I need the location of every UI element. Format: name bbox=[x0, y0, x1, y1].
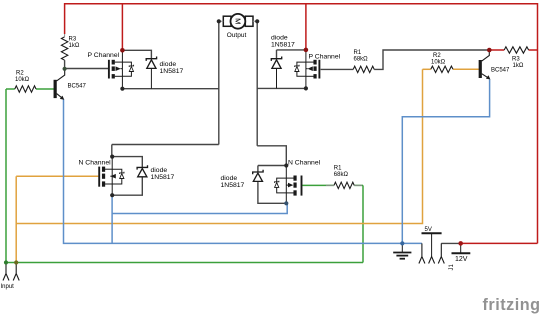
svg-text:R3: R3 bbox=[512, 57, 520, 63]
node motor left terminal bbox=[217, 19, 221, 23]
motor M1 Output bbox=[219, 14, 257, 29]
node N1 drain bbox=[110, 155, 114, 159]
node 12V junction bbox=[458, 241, 463, 246]
ground symbol bbox=[393, 243, 411, 258]
diode D2 1N5817 bbox=[271, 57, 281, 89]
svg-text:68kΩ: 68kΩ bbox=[354, 57, 369, 63]
wire N1 source to D3 bottom bbox=[112, 177, 142, 195]
node ground junction bbox=[400, 241, 404, 245]
resistor R2 left 10k bbox=[15, 86, 36, 92]
diode D4 1N5817 bbox=[253, 170, 263, 183]
wire red drop to P1 drain bbox=[121, 4, 123, 51]
node input pin1 green bbox=[4, 260, 8, 264]
svg-text:R2: R2 bbox=[16, 71, 24, 77]
wire red R3 right to rail bbox=[529, 49, 538, 51]
wire orange input B bus bbox=[16, 69, 479, 262]
svg-text:5V: 5V bbox=[425, 227, 432, 233]
mosfet P2 P-Channel right (mirrored) bbox=[295, 50, 320, 89]
wire P1 drain to D1 top bbox=[122, 50, 151, 58]
wire 12V red top rail bbox=[65, 4, 538, 244]
wire green to R2 left bbox=[6, 88, 15, 90]
svg-text:10kΩ: 10kΩ bbox=[431, 60, 446, 66]
svg-text:P Channel: P Channel bbox=[309, 53, 341, 60]
mosfet N2 N-Channel right (mirrored) bbox=[275, 166, 302, 204]
wire dark nets bbox=[65, 21, 490, 243]
resistor R2 right 10k bbox=[431, 66, 453, 72]
wire R1 to BC547 right collector node bbox=[374, 50, 489, 69]
mosfet N1 N-Channel left bbox=[99, 157, 124, 196]
wire green R2 to Q1 base bbox=[36, 88, 54, 90]
svg-text:N Channel: N Channel bbox=[79, 160, 112, 167]
wire red to R3 right bbox=[489, 49, 504, 51]
svg-text:1N5817: 1N5817 bbox=[221, 182, 245, 189]
svg-text:10kΩ: 10kΩ bbox=[15, 77, 30, 83]
svg-text:1N5817: 1N5817 bbox=[160, 68, 184, 75]
wire blue N1 source drop bbox=[111, 195, 113, 243]
resistor R3 left 1k bbox=[61, 34, 67, 60]
node N1 source bbox=[110, 193, 114, 197]
svg-text:Output: Output bbox=[227, 32, 247, 39]
svg-text:R1: R1 bbox=[334, 166, 342, 172]
wire orange bottom bus to right riser bbox=[16, 69, 422, 223]
wire red rail top and right edge bbox=[65, 4, 538, 244]
wire N1 drain to D3 top bbox=[112, 157, 142, 168]
svg-text:R2: R2 bbox=[433, 53, 441, 59]
wire red 12V battery feed bbox=[461, 242, 538, 244]
wire P2 drain to D2 top bbox=[277, 49, 306, 51]
node P2 drain 12V bbox=[304, 48, 309, 53]
svg-text:M: M bbox=[233, 18, 242, 24]
body diode of N2 bbox=[275, 181, 279, 188]
mosfet P1 P-Channel left bbox=[109, 50, 134, 88]
svg-text:68kΩ: 68kΩ bbox=[334, 172, 349, 178]
node motor right terminal bbox=[255, 19, 259, 23]
wire blue Q2 emitter to ground junction bbox=[402, 80, 489, 244]
wire orange R2 to Q2 base bbox=[453, 68, 479, 70]
wire green N2 gate to R1 bbox=[302, 184, 334, 186]
wire orange to N1 gate bbox=[16, 175, 98, 177]
node N2 source bbox=[284, 201, 288, 205]
resistor R1 top 68k bbox=[353, 66, 374, 72]
svg-text:J1: J1 bbox=[449, 264, 455, 271]
node N2 drain bbox=[284, 163, 288, 167]
battery 12V bbox=[452, 243, 471, 253]
resistor R3 right 1k bbox=[504, 47, 528, 53]
svg-text:1N5817: 1N5817 bbox=[151, 174, 175, 181]
wire motor-right branch bbox=[256, 21, 258, 146]
wire blue N1 source to N2 source bbox=[112, 203, 287, 213]
wire P1 gate node bbox=[64, 60, 66, 68]
wire blue ground bus bbox=[64, 80, 490, 244]
wire N2 drain to D4 top bbox=[258, 165, 286, 167]
svg-text:N Channel: N Channel bbox=[288, 160, 321, 167]
node P2 source bottom bbox=[304, 86, 308, 90]
wire J1 pin3 to 12V bbox=[441, 242, 460, 244]
svg-text:P Channel: P Channel bbox=[88, 52, 120, 59]
node input pin2 orange bbox=[14, 260, 18, 264]
svg-text:BC547: BC547 bbox=[491, 68, 510, 74]
transistor Q2 BC547 right bbox=[479, 50, 491, 80]
wire blue Q1 emitter to ground bus bbox=[64, 100, 422, 244]
wire N2 source to D4 bottom bbox=[258, 183, 286, 204]
svg-text:BC547: BC547 bbox=[68, 84, 87, 90]
node P1 gate / R3 / Q1 collector bbox=[63, 67, 67, 71]
wire red drop to P2 drain bbox=[305, 4, 307, 50]
diode D1 1N5817 bbox=[146, 57, 156, 89]
wire motor-left branch bbox=[122, 88, 218, 90]
wire P2 gate to R1 bbox=[321, 68, 354, 70]
wire green bottom bus bbox=[6, 262, 363, 264]
wire green riser to R1 bottom bbox=[362, 185, 364, 262]
diode D3 1N5817 bbox=[137, 165, 147, 177]
body diode of P1 bbox=[129, 65, 133, 72]
svg-text:fritzing: fritzing bbox=[483, 296, 540, 314]
resistor R1 bottom 68k bbox=[326, 182, 362, 188]
node P1 drain 12V bbox=[120, 48, 125, 53]
svg-text:1N5817: 1N5817 bbox=[271, 41, 295, 48]
wire green input1 vertical bbox=[5, 89, 7, 263]
svg-text:Input: Input bbox=[1, 284, 15, 290]
svg-text:1kΩ: 1kΩ bbox=[513, 63, 524, 69]
svg-text:12V: 12V bbox=[455, 256, 468, 263]
wire green R1 to riser bbox=[354, 184, 363, 186]
wire orange input2 vertical bbox=[15, 176, 17, 262]
svg-text:R3: R3 bbox=[69, 37, 77, 43]
node Q2 collector / R1 / R3 bbox=[487, 48, 492, 53]
svg-text:1kΩ: 1kΩ bbox=[69, 43, 80, 49]
connector J1 3-pin header bbox=[419, 243, 444, 263]
battery 5V bbox=[422, 233, 442, 256]
svg-text:R1: R1 bbox=[354, 50, 362, 56]
wire green input A vertical and bottom bus bbox=[6, 89, 363, 263]
body diode of P2 bbox=[295, 65, 299, 72]
wire orange to R2 right bbox=[423, 68, 431, 70]
transistor Q1 BC547 left bbox=[54, 70, 65, 100]
node P1 source bottom bbox=[120, 87, 124, 91]
connector Input 2-pin header bbox=[3, 263, 19, 281]
body diode of N1 bbox=[120, 172, 124, 179]
